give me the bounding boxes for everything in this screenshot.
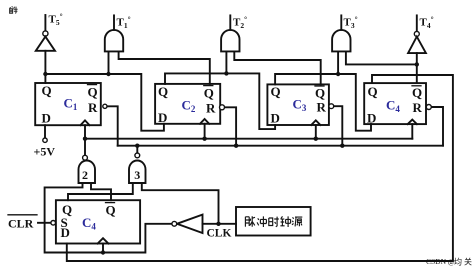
svg-text:Q: Q xyxy=(368,84,378,99)
text jie: (solution) hand strokes xyxy=(9,7,17,14)
svg-text:D: D xyxy=(61,225,70,240)
flip-flop C2 clock chevron xyxy=(200,119,209,124)
overbar CLR xyxy=(8,214,37,216)
wire gate 3 output stub xyxy=(136,146,138,153)
overbar C3 Qbar xyxy=(315,85,324,87)
svg-text:D: D xyxy=(367,111,376,126)
svg-text:Q: Q xyxy=(158,84,168,99)
text pulse-clock-source hand strokes xyxy=(245,216,302,227)
wire gate2 output up through C1 clock xyxy=(84,125,86,155)
inverter G5 (T5 output) xyxy=(44,15,46,31)
wire C1.R to bus B xyxy=(107,106,118,145)
wire net Q2 bus (C2.Q riser, T2 left input, down to C3.D step) xyxy=(165,51,275,129)
svg-text:+5V: +5V xyxy=(34,145,56,159)
node junction dot gate3 out xyxy=(135,144,139,148)
flip-flop C5 box (bottom) xyxy=(56,200,140,243)
overbar C5 Qbar xyxy=(106,202,115,204)
NAND gate 2 xyxy=(79,161,96,184)
svg-text:R: R xyxy=(206,101,216,116)
wire C3.R to bus B xyxy=(334,106,342,146)
char yuan xyxy=(292,217,302,226)
wire C4 clock pin xyxy=(411,124,413,139)
wire T1 right input from C2 Qbar xyxy=(119,51,210,84)
node junction dot Q1-G5 xyxy=(43,72,47,76)
svg-text:Q: Q xyxy=(88,85,98,100)
svg-text:CSDN @: CSDN @ xyxy=(426,257,455,266)
AND gate G3 (T3 output) xyxy=(340,15,342,29)
svg-text:Q: Q xyxy=(315,86,325,101)
NAND gate 3 xyxy=(129,161,146,184)
wire net Q4 feedback (C4.Q riser right, down right side, along bottom, up to C5.D) xyxy=(67,75,453,261)
wire CLK node to inverter input and clock source xyxy=(203,223,237,225)
wire net Q3 bus (C3.Q riser, T3 left input, down to C4.D step) xyxy=(275,51,371,130)
inverter G4 (T4 output) xyxy=(416,15,418,31)
wire C2.R to bus B xyxy=(224,107,236,145)
svg-text:R: R xyxy=(88,100,98,115)
node junction dot C2clk xyxy=(202,137,206,141)
node junction dot gate2-C1clk xyxy=(83,137,87,141)
flip-flop C4 box xyxy=(364,83,426,124)
flip-flop C5 S bubble xyxy=(51,221,56,226)
svg-text:2: 2 xyxy=(82,168,88,182)
clock source box xyxy=(236,207,311,236)
svg-text:R: R xyxy=(413,100,423,115)
flip-flop C3 clock chevron xyxy=(311,120,320,125)
wire C5.Q to gate3 left input xyxy=(68,183,133,200)
flip-flop C2 box xyxy=(155,84,220,124)
node junction dot C2R-busB xyxy=(234,144,238,148)
wire C1.D to +5V terminal xyxy=(44,125,46,138)
wire CLRbar input xyxy=(38,222,50,224)
svg-text:R: R xyxy=(317,100,327,115)
node junction dot C5clk xyxy=(101,250,105,254)
svg-text:CLR: CLR xyxy=(8,217,34,231)
svg-text:Q: Q xyxy=(204,86,214,101)
overbar C2 Qbar xyxy=(204,85,213,87)
svg-text:D: D xyxy=(271,111,280,126)
wire C2 clock pin xyxy=(204,124,206,139)
AND gate G1 (T1 output) xyxy=(113,15,115,29)
node junction dot Q1-T1left xyxy=(106,72,110,76)
svg-text:Q: Q xyxy=(106,203,116,218)
AND gate G2 (T2 output) xyxy=(229,15,231,29)
node junction dot CLK xyxy=(216,222,220,226)
terminal +5V open circle xyxy=(43,138,47,142)
wire net Q1 bus (C1.Q to inverter G5, T1 left input, down to C2.D step) xyxy=(45,51,163,131)
svg-text:Q: Q xyxy=(271,84,281,99)
wire C3 clock pin xyxy=(315,125,317,139)
flip-flop C4 clock chevron xyxy=(408,120,417,125)
char mai xyxy=(245,216,255,227)
svg-text:均 关: 均 关 xyxy=(454,257,472,267)
node junction dot Q3-T3left xyxy=(336,72,340,76)
wire C5 clock pin xyxy=(102,244,104,253)
wire bus B (gate3 output clock line CP2) xyxy=(118,145,443,147)
wire T2 right input from C3 Qbar xyxy=(234,51,320,84)
wire gate3 right input from CLK xyxy=(142,183,219,224)
char shi xyxy=(269,217,279,227)
svg-text:D: D xyxy=(158,110,167,125)
flip-flop C5 clock chevron xyxy=(98,238,109,243)
flip-flop C1 R bubble xyxy=(103,104,107,108)
flip-flop C4 R bubble xyxy=(426,105,431,110)
overbar C4 Qbar xyxy=(412,85,421,87)
flip-flop C1 box xyxy=(35,83,101,125)
inverter G6 (clock buffer, points left) xyxy=(177,215,203,233)
node junction dot C3R-busB xyxy=(340,144,344,148)
flip-flop C3 box xyxy=(267,84,329,125)
node junction dot Q2-T2left xyxy=(224,71,228,75)
svg-text:3: 3 xyxy=(134,168,140,182)
overbar C1 Qbar xyxy=(88,84,97,86)
svg-text:Q: Q xyxy=(412,85,422,100)
svg-text:D: D xyxy=(42,111,51,126)
wire C4.R to bus B xyxy=(432,107,443,146)
char zhong xyxy=(280,216,290,227)
flip-flop C2 R bubble xyxy=(220,105,225,110)
wire T3 right input from C4 Qbar, tap to inverter G4 xyxy=(346,51,417,83)
svg-text:CLK: CLK xyxy=(207,228,232,240)
node junction dot C3clk xyxy=(314,137,318,141)
wire bus A (gate2 output clock line CP1) xyxy=(85,138,412,140)
flip-flop C1 clock chevron xyxy=(81,120,90,125)
flip-flop C3 R bubble xyxy=(329,104,334,109)
wire CP net: gate2 left input, down left side, along y252.5, up to inverter output xyxy=(45,183,172,253)
char chong xyxy=(257,216,266,227)
svg-text:Q: Q xyxy=(42,83,52,98)
wire C5.Qbar to gate2 right input xyxy=(91,183,111,200)
node junction dot Qbar4 xyxy=(415,62,419,66)
